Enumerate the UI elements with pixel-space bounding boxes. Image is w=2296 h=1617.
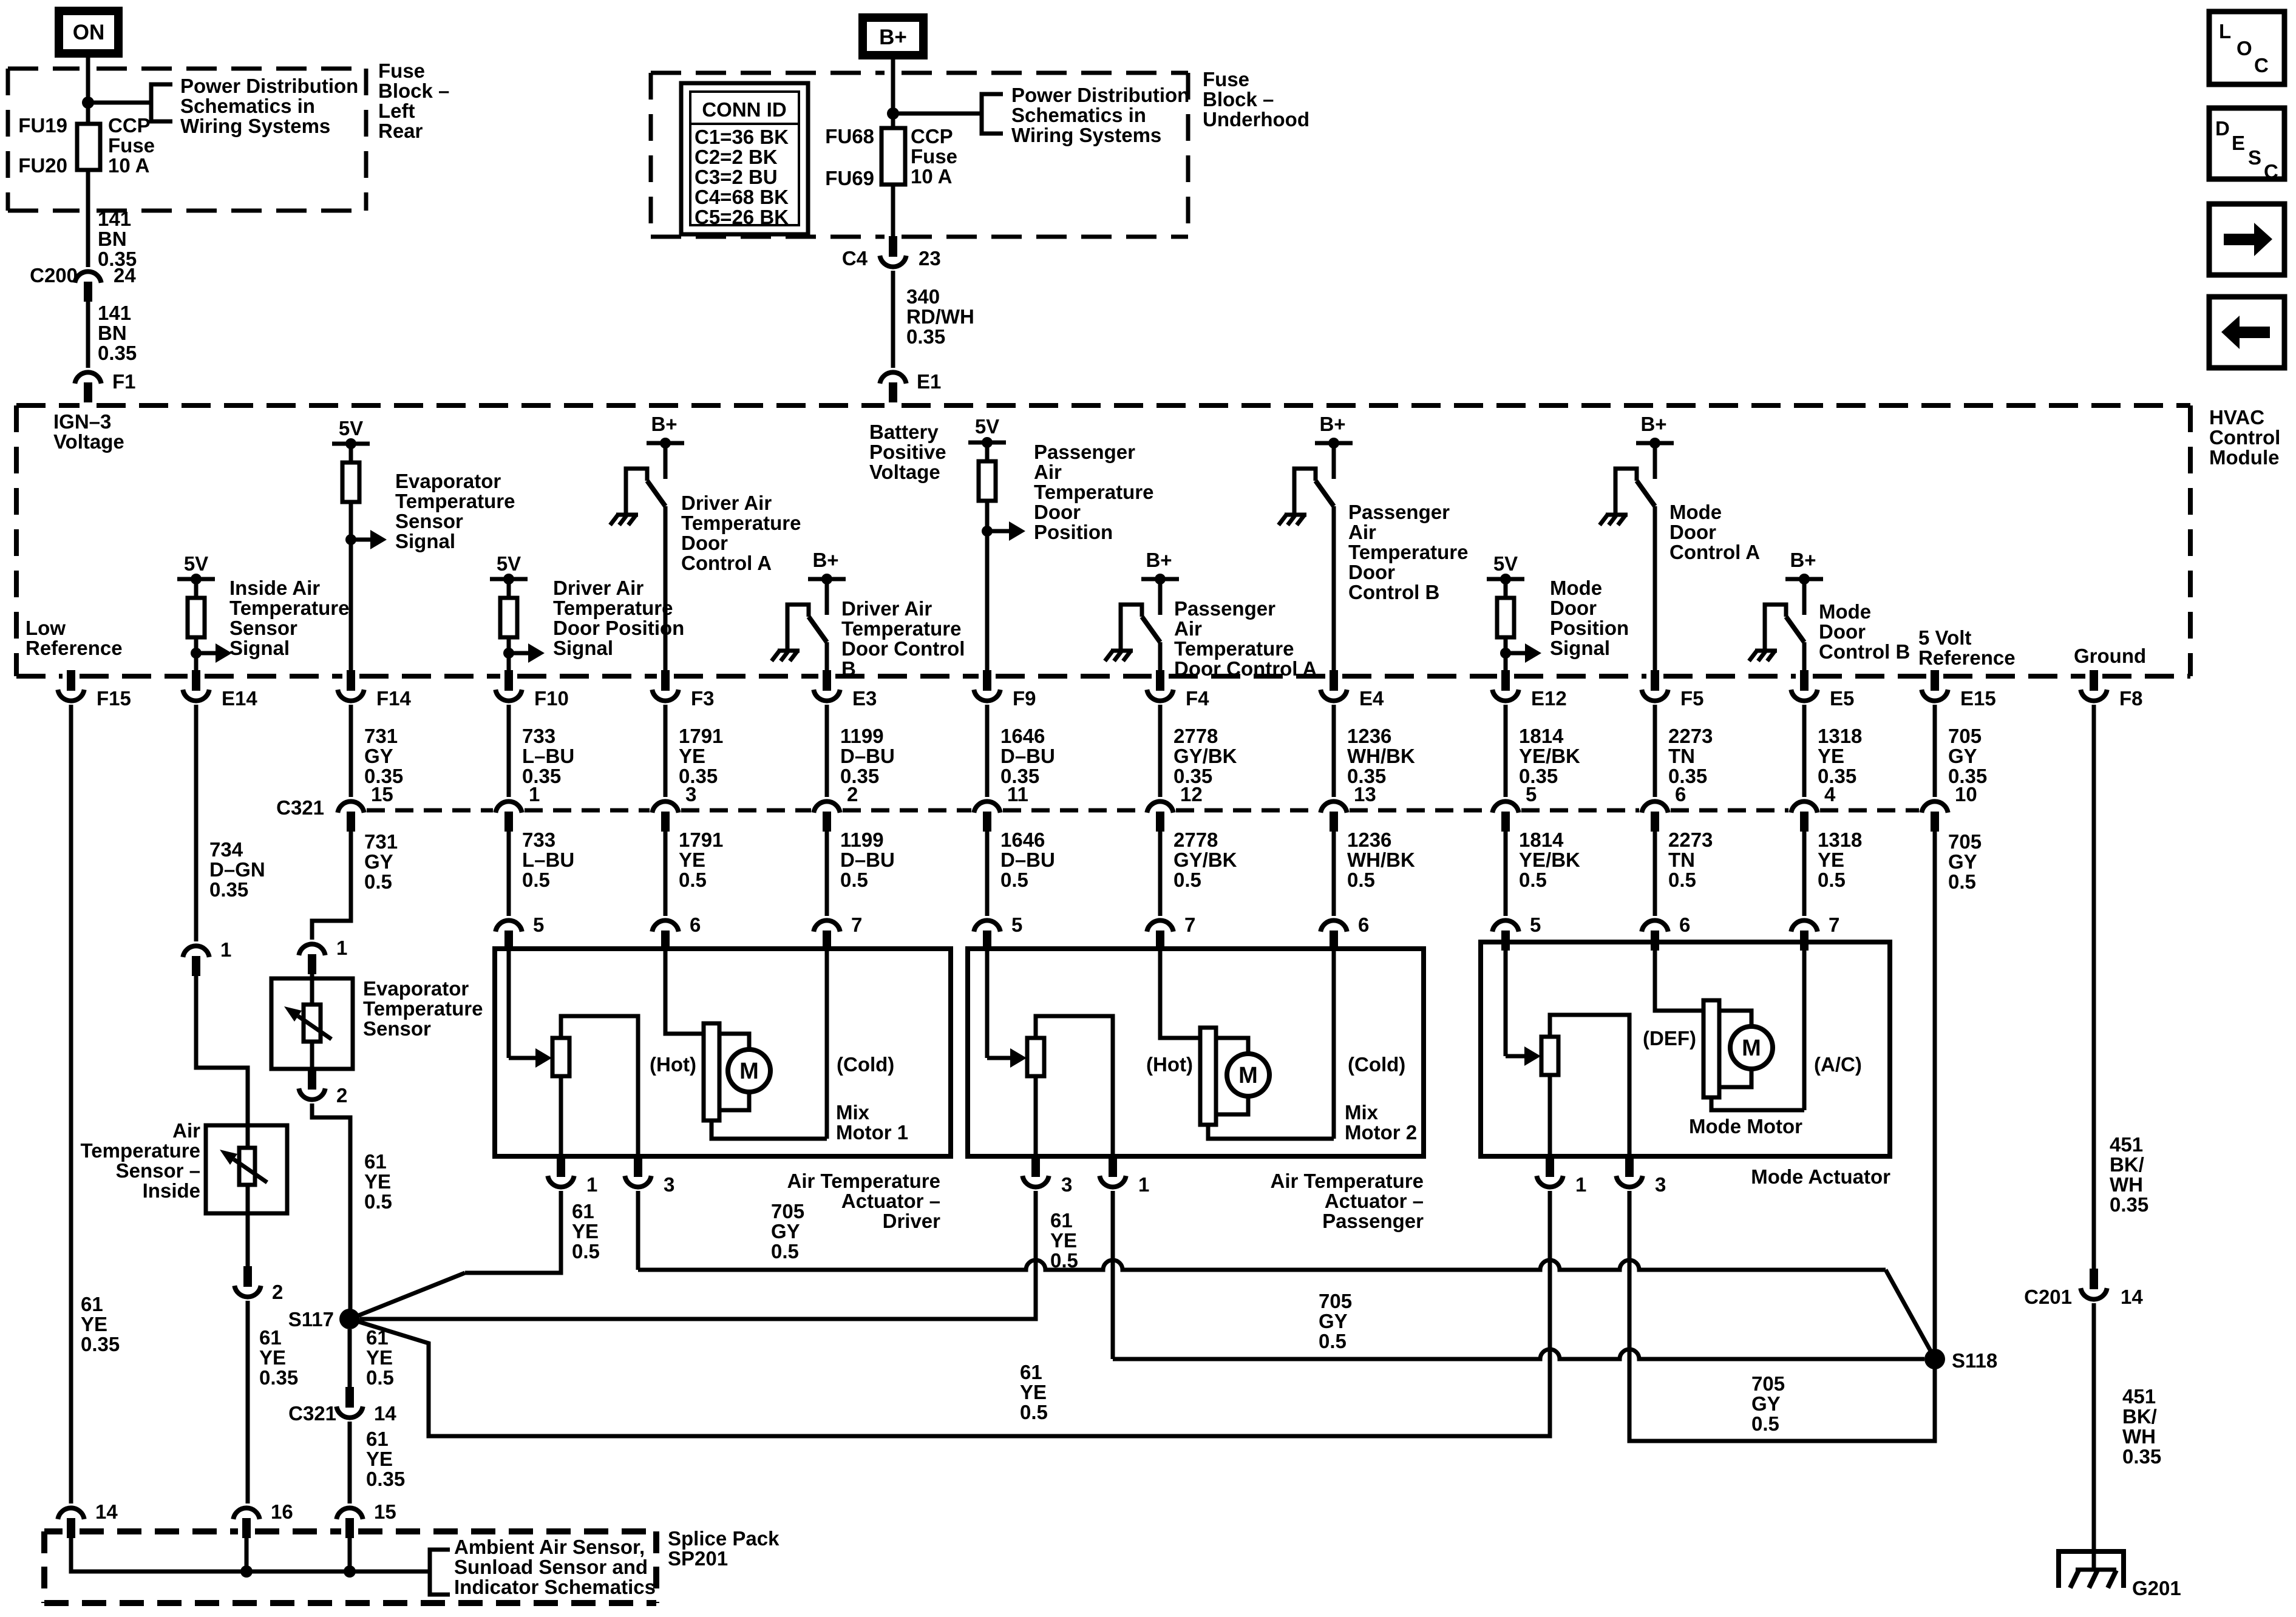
svg-text:(Hot): (Hot)	[1146, 1053, 1193, 1076]
power symbol B+ (battery feed)	[863, 18, 923, 55]
connector pin F10 of HVAC control module	[504, 670, 513, 691]
connector pin E14 of HVAC control module	[192, 670, 200, 691]
svg-text:Fuse: Fuse	[1203, 68, 1249, 90]
connector pin E5 of HVAC control module	[1800, 670, 1809, 691]
legend box arrow right	[2209, 204, 2284, 275]
svg-text:Temperature: Temperature	[841, 617, 961, 640]
svg-text:15: 15	[371, 783, 393, 805]
wire F4 to C321 pin 12	[1158, 705, 1163, 797]
svg-text:Block –: Block –	[1203, 88, 1274, 110]
wire C321-14 to SP201 pin 15	[348, 1422, 352, 1503]
svg-text:0.5: 0.5	[1173, 869, 1201, 891]
svg-text:Voltage: Voltage	[53, 430, 124, 453]
svg-text:BN: BN	[98, 322, 127, 344]
connector C321 pin 1	[495, 801, 521, 812]
svg-text:Inside: Inside	[143, 1179, 200, 1202]
node junction on B+ feed	[887, 107, 899, 120]
svg-text:BN: BN	[98, 228, 127, 250]
svg-text:YE/BK: YE/BK	[1519, 745, 1580, 767]
svg-text:0.5: 0.5	[364, 870, 392, 893]
svg-text:WH/BK: WH/BK	[1347, 745, 1415, 767]
svg-text:SP201: SP201	[668, 1547, 728, 1570]
svg-text:GY/BK: GY/BK	[1173, 745, 1237, 767]
legend box arrow left	[2209, 297, 2284, 368]
svg-text:Temperature: Temperature	[1174, 637, 1294, 660]
svg-text:YE: YE	[1818, 849, 1844, 871]
svg-text:Door: Door	[1034, 501, 1081, 523]
svg-text:733: 733	[522, 725, 555, 747]
svg-text:Door Control A: Door Control A	[1174, 657, 1317, 680]
connector C321 pin 2	[813, 801, 840, 812]
actuator connector pin 5 (col E12)	[1492, 920, 1518, 931]
svg-text:Actuator –: Actuator –	[841, 1190, 940, 1212]
svg-text:Driver Air: Driver Air	[553, 577, 644, 599]
svg-text:5V: 5V	[339, 417, 363, 439]
svg-text:B+: B+	[1790, 549, 1816, 571]
svg-text:0.35: 0.35	[679, 765, 718, 787]
svg-text:Power Distribution: Power Distribution	[180, 75, 358, 97]
svg-text:3: 3	[664, 1173, 674, 1196]
svg-text:C321: C321	[276, 796, 324, 819]
svg-text:1236: 1236	[1347, 829, 1391, 851]
svg-text:F4: F4	[1186, 687, 1209, 710]
svg-text:0.35: 0.35	[2110, 1193, 2148, 1216]
connector pin 1 driver actuator	[557, 1156, 565, 1177]
splice S117	[339, 1309, 360, 1329]
svg-text:Door: Door	[1669, 521, 1716, 543]
actuator connector pin 5 (col F9)	[974, 920, 1000, 931]
svg-text:E4: E4	[1359, 687, 1384, 710]
svg-text:Evaporator: Evaporator	[363, 977, 469, 1000]
wire driver actuator pin3 705 GY to splice S118	[636, 1191, 640, 1270]
wire pin 2 to SP201 pin 16	[246, 1301, 250, 1503]
svg-text:Fuse: Fuse	[108, 134, 155, 157]
wire E3 to C321 pin 2	[825, 705, 829, 797]
svg-text:E3: E3	[852, 687, 877, 710]
connector pin 1 evaporator temperature sensor	[299, 944, 325, 955]
svg-text:Fuse: Fuse	[911, 145, 957, 168]
wire F3 to C321 pin 3	[664, 705, 668, 797]
svg-text:IGN–3: IGN–3	[53, 410, 111, 433]
svg-text:GY: GY	[364, 745, 393, 767]
connector C321 pin 12	[1147, 801, 1173, 812]
svg-text:Signal: Signal	[229, 637, 290, 659]
svg-text:Indicator Schematics: Indicator Schematics	[454, 1576, 656, 1598]
svg-text:C200: C200	[30, 264, 78, 286]
svg-text:16: 16	[271, 1500, 293, 1523]
svg-text:B+: B+	[1146, 549, 1172, 571]
svg-text:1814: 1814	[1519, 829, 1564, 851]
svg-text:141: 141	[98, 302, 131, 324]
svg-text:10: 10	[1955, 783, 1977, 805]
svg-text:0.5: 0.5	[1000, 869, 1028, 891]
wire E5 below C321 to actuator pin 7	[1802, 832, 1807, 916]
wire E15 below C321 to splice S118	[1933, 832, 1937, 1358]
svg-text:YE: YE	[1818, 745, 1844, 767]
connector C321 pin 3	[652, 801, 678, 812]
svg-text:E15: E15	[1960, 687, 1996, 710]
svg-text:YE/BK: YE/BK	[1519, 849, 1580, 871]
wire ON to fuse FU19/FU20	[86, 53, 90, 124]
wire F10 to C321 pin 1	[507, 705, 511, 797]
actuator box Air Temperature Actuator - Passenger	[968, 949, 1424, 1156]
svg-text:3: 3	[1061, 1173, 1072, 1196]
svg-text:YE: YE	[679, 849, 705, 871]
actuator box Mode Actuator	[1481, 942, 1890, 1156]
wire E3 below C321 to actuator pin 7	[825, 832, 829, 916]
svg-text:1199: 1199	[840, 725, 884, 747]
wire F4 below C321 to actuator pin 7	[1158, 832, 1163, 916]
connector C321 pin 6	[1642, 801, 1668, 812]
node bus junction at pin 15	[344, 1565, 356, 1578]
svg-text:Air: Air	[172, 1119, 200, 1142]
svg-text:451: 451	[2110, 1133, 2143, 1156]
svg-text:61: 61	[364, 1150, 387, 1173]
svg-text:L–BU: L–BU	[522, 849, 574, 871]
svg-text:CCP: CCP	[108, 114, 151, 137]
connector pin E4 of HVAC control module	[1330, 670, 1338, 691]
svg-text:Position: Position	[1550, 617, 1629, 639]
svg-text:5V: 5V	[184, 552, 208, 575]
legend box DESC	[2209, 108, 2284, 179]
svg-text:Driver Air: Driver Air	[841, 597, 932, 620]
connector C4 pin 23	[889, 236, 897, 257]
svg-text:D–BU: D–BU	[840, 745, 895, 767]
svg-text:0.35: 0.35	[98, 342, 137, 364]
wire sensor to pin 2	[246, 1213, 250, 1266]
connector pin E3 of HVAC control module	[823, 670, 831, 691]
svg-text:Mode: Mode	[1819, 600, 1871, 623]
power symbol ON (ignition feed)	[59, 11, 118, 53]
svg-text:Control A: Control A	[681, 552, 772, 574]
svg-text:61: 61	[81, 1293, 103, 1315]
svg-text:Motor 2: Motor 2	[1345, 1121, 1417, 1144]
svg-text:451: 451	[2122, 1385, 2156, 1408]
connector pin 1 air temperature sensor inside	[183, 946, 209, 957]
svg-text:B: B	[841, 657, 856, 680]
svg-text:1646: 1646	[1000, 829, 1045, 851]
svg-text:C201: C201	[2024, 1286, 2072, 1308]
connector pin F1 of HVAC control module	[75, 372, 101, 383]
svg-text:7: 7	[1829, 914, 1839, 936]
connector pin 1 mode actuator	[1546, 1156, 1554, 1177]
svg-text:2: 2	[272, 1281, 283, 1303]
wire E4 below C321 to actuator pin 6	[1332, 832, 1336, 916]
svg-text:(Cold): (Cold)	[1348, 1053, 1405, 1076]
svg-text:Ground: Ground	[2074, 645, 2146, 667]
svg-text:0.5: 0.5	[1020, 1401, 1048, 1423]
wire S117 to passenger actuator pin3 (61 YE 0.5)	[360, 1191, 1036, 1319]
dashed box Fuse Block - Left Rear	[8, 67, 80, 71]
svg-text:BK/: BK/	[2122, 1405, 2157, 1428]
svg-text:Position: Position	[1034, 521, 1113, 543]
svg-text:F3: F3	[691, 687, 715, 710]
svg-text:L: L	[2219, 20, 2231, 42]
svg-text:24: 24	[114, 264, 136, 286]
svg-text:C3=2 BU: C3=2 BU	[695, 166, 778, 188]
svg-text:0.5: 0.5	[572, 1240, 600, 1263]
svg-text:B+: B+	[1640, 413, 1666, 435]
svg-text:2: 2	[847, 783, 858, 805]
svg-text:12: 12	[1180, 783, 1203, 805]
svg-text:CONN ID: CONN ID	[702, 98, 786, 121]
dashed line C321 connector	[367, 808, 493, 813]
svg-text:2273: 2273	[1668, 829, 1713, 851]
svg-text:0.5: 0.5	[679, 869, 707, 891]
svg-text:1646: 1646	[1000, 725, 1045, 747]
svg-text:Control B: Control B	[1348, 581, 1439, 603]
svg-text:D–BU: D–BU	[1000, 849, 1055, 871]
wire fuse to connector C200	[86, 170, 90, 267]
svg-text:TN: TN	[1668, 849, 1695, 871]
wire C4 to HVAC module pin E1	[891, 271, 895, 368]
svg-text:0.35: 0.35	[1519, 765, 1558, 787]
actuator connector pin 7 (col F4)	[1147, 920, 1173, 931]
svg-text:5V: 5V	[497, 552, 521, 575]
svg-text:6: 6	[1679, 914, 1690, 936]
actuator connector pin 6 (col F5)	[1642, 920, 1668, 931]
svg-text:Temperature: Temperature	[1034, 481, 1153, 503]
reference bracket Ambient Air Sensor schematics	[430, 1550, 450, 1595]
connector SP201 pin 16	[233, 1508, 259, 1519]
svg-text:Door: Door	[1819, 620, 1866, 643]
connector pin F4 of HVAC control module	[1156, 670, 1164, 691]
svg-text:0.5: 0.5	[1519, 869, 1547, 891]
svg-text:1: 1	[586, 1173, 597, 1196]
svg-text:5: 5	[1526, 783, 1537, 805]
svg-text:ON: ON	[73, 21, 105, 44]
svg-text:F10: F10	[534, 687, 569, 710]
svg-text:1199: 1199	[840, 829, 884, 851]
svg-text:Control: Control	[2209, 426, 2280, 449]
svg-text:Temperature: Temperature	[363, 997, 483, 1020]
svg-text:Schematics in: Schematics in	[1011, 104, 1146, 126]
potentiometer mode actuator	[1504, 935, 1508, 1056]
svg-text:Mode: Mode	[1550, 577, 1602, 599]
svg-text:D: D	[2215, 117, 2230, 140]
svg-text:GY: GY	[1319, 1310, 1348, 1332]
connector pin E1 of HVAC control module	[880, 372, 906, 383]
svg-text:0.5: 0.5	[1347, 869, 1375, 891]
motor M mix motor 2	[1160, 949, 1200, 1038]
svg-text:Sunload Sensor and: Sunload Sensor and	[454, 1556, 648, 1578]
svg-text:340: 340	[906, 285, 940, 308]
svg-text:1318: 1318	[1818, 725, 1862, 747]
svg-text:(Cold): (Cold)	[837, 1053, 894, 1076]
svg-text:Driver: Driver	[883, 1210, 941, 1232]
svg-text:Passenger: Passenger	[1322, 1210, 1424, 1232]
connector SP201 pin 14	[58, 1508, 84, 1519]
svg-text:5: 5	[1011, 914, 1022, 936]
svg-text:0.5: 0.5	[364, 1190, 392, 1213]
wire driver actuator pin1 to S117 (61 YE 0.5)	[465, 1191, 561, 1273]
wire E12 to C321 pin 5	[1504, 705, 1508, 797]
wire E14 to air temperature sensor pin 1	[194, 705, 199, 941]
wire F9 to C321 pin 11	[985, 705, 990, 797]
sensor Evaporator Temperature Sensor (variable resistor)	[271, 978, 353, 1069]
svg-text:Control B: Control B	[1819, 640, 1910, 663]
connector pin 3 passenger actuator	[1031, 1156, 1040, 1177]
svg-text:B+: B+	[812, 549, 838, 571]
svg-text:0.5: 0.5	[366, 1366, 394, 1389]
svg-text:O: O	[2237, 37, 2252, 59]
svg-text:0.35: 0.35	[840, 765, 879, 787]
svg-text:G201: G201	[2132, 1577, 2181, 1599]
svg-text:E12: E12	[1531, 687, 1567, 710]
svg-text:Signal: Signal	[553, 637, 613, 659]
connector C321 pin 10	[1921, 801, 1948, 812]
svg-text:RD/WH: RD/WH	[906, 305, 974, 328]
svg-text:GY/BK: GY/BK	[1173, 849, 1237, 871]
wire mode actuator pin3 705 GY to S118	[1629, 1191, 1935, 1441]
connector C321 pin 13	[1320, 801, 1347, 812]
svg-text:6: 6	[1358, 914, 1369, 936]
svg-text:Actuator –: Actuator –	[1325, 1190, 1424, 1212]
svg-text:Door: Door	[1348, 561, 1395, 583]
svg-text:(A/C): (A/C)	[1814, 1053, 1862, 1076]
svg-text:705: 705	[1948, 725, 1982, 747]
svg-text:BK/: BK/	[2110, 1153, 2144, 1176]
wire S117 down to C321 pin 14	[348, 1329, 352, 1387]
svg-text:1318: 1318	[1818, 829, 1862, 851]
svg-text:GY: GY	[771, 1220, 800, 1242]
svg-text:0.35: 0.35	[2122, 1445, 2161, 1468]
connector C321 pin 11	[974, 801, 1000, 812]
svg-text:S: S	[2248, 146, 2261, 169]
svg-text:YE: YE	[259, 1346, 286, 1369]
svg-text:7: 7	[851, 914, 862, 936]
wire F5 to C321 pin 6	[1653, 705, 1657, 797]
svg-text:1: 1	[1138, 1173, 1149, 1196]
svg-text:D–BU: D–BU	[1000, 745, 1055, 767]
svg-text:M: M	[1238, 1063, 1258, 1088]
connector pin F15 of HVAC control module	[67, 670, 75, 691]
svg-text:Passenger: Passenger	[1034, 441, 1135, 463]
svg-text:5 Volt: 5 Volt	[1918, 626, 1971, 649]
dashed box HVAC Control Module	[16, 403, 80, 408]
svg-text:11: 11	[1007, 783, 1028, 805]
svg-text:L–BU: L–BU	[522, 745, 574, 767]
svg-text:Splice Pack: Splice Pack	[668, 1527, 779, 1550]
svg-text:61: 61	[366, 1428, 389, 1450]
connector C321 pin 5	[1492, 801, 1518, 812]
svg-text:5V: 5V	[1493, 552, 1518, 575]
svg-text:0.35: 0.35	[1818, 765, 1856, 787]
wire F14 below C321 to evaporator sensor	[312, 832, 351, 940]
svg-text:Sensor: Sensor	[363, 1017, 431, 1040]
svg-text:1236: 1236	[1347, 725, 1391, 747]
svg-text:Power Distribution: Power Distribution	[1011, 84, 1189, 106]
svg-text:705: 705	[1948, 830, 1982, 853]
wire S117 to mode actuator pin1 (61 YE 0.5)	[350, 1191, 1550, 1436]
svg-text:Mix: Mix	[836, 1101, 870, 1124]
svg-text:Sensor –: Sensor –	[116, 1159, 200, 1182]
connector C321 pin 15	[338, 801, 364, 812]
table CONN ID	[681, 83, 808, 234]
svg-text:0.35: 0.35	[209, 878, 248, 901]
connector pin 2 evaporator temperature sensor	[308, 1069, 316, 1090]
svg-text:M: M	[1742, 1036, 1761, 1061]
svg-text:CCP: CCP	[911, 125, 953, 147]
svg-text:4: 4	[1824, 783, 1836, 805]
splice S118	[1924, 1349, 1945, 1369]
svg-text:B+: B+	[879, 25, 907, 49]
svg-text:D–BU: D–BU	[840, 849, 895, 871]
wire F3 below C321 to actuator pin 6	[664, 832, 668, 916]
svg-text:0.35: 0.35	[906, 325, 945, 348]
svg-text:Wiring Systems: Wiring Systems	[1011, 124, 1161, 146]
connector pin 3 mode actuator	[1625, 1156, 1634, 1177]
svg-text:Mode Motor: Mode Motor	[1689, 1115, 1802, 1137]
svg-text:731: 731	[364, 725, 398, 747]
connector pin 2 air temperature sensor inside	[243, 1266, 252, 1287]
svg-text:Temperature: Temperature	[1348, 541, 1468, 563]
svg-text:Temperature: Temperature	[81, 1139, 200, 1162]
svg-text:0.35: 0.35	[259, 1366, 298, 1389]
svg-text:C1=36 BK: C1=36 BK	[695, 126, 789, 148]
svg-text:YE: YE	[366, 1448, 393, 1470]
svg-text:WH: WH	[2110, 1173, 2143, 1196]
svg-text:C2=2 BK: C2=2 BK	[695, 146, 778, 168]
connector pin E15 of HVAC control module	[1931, 670, 1939, 691]
svg-text:E1: E1	[917, 370, 941, 393]
svg-text:GY: GY	[1948, 745, 1977, 767]
svg-text:C4: C4	[842, 247, 868, 269]
svg-text:Door Control: Door Control	[841, 637, 965, 660]
wire junction to reference bracket	[893, 112, 982, 116]
svg-text:Motor 1: Motor 1	[836, 1121, 908, 1144]
svg-text:61: 61	[259, 1326, 282, 1349]
svg-text:Ambient Air Sensor,: Ambient Air Sensor,	[454, 1536, 645, 1558]
svg-text:13: 13	[1354, 783, 1376, 805]
svg-text:Module: Module	[2209, 446, 2279, 469]
svg-text:D–GN: D–GN	[209, 858, 265, 881]
svg-text:Schematics in: Schematics in	[180, 95, 315, 117]
svg-text:1791: 1791	[679, 725, 723, 747]
svg-text:Reference: Reference	[25, 637, 123, 659]
svg-text:1: 1	[529, 783, 540, 805]
svg-text:Door: Door	[681, 532, 728, 554]
svg-text:Air: Air	[1034, 461, 1062, 483]
svg-text:3: 3	[1655, 1173, 1666, 1196]
svg-text:0.35: 0.35	[366, 1468, 405, 1490]
wire E15 to C321 pin 10	[1933, 705, 1937, 797]
actuator connector pin 6 (col F3)	[652, 920, 678, 931]
connector pin E12 of HVAC control module	[1501, 670, 1510, 691]
svg-text:(DEF): (DEF)	[1643, 1027, 1696, 1049]
potentiometer driver actuator	[507, 937, 511, 1058]
svg-text:TN: TN	[1668, 745, 1695, 767]
svg-text:Inside Air: Inside Air	[229, 577, 320, 599]
svg-text:0.35: 0.35	[81, 1333, 120, 1355]
svg-text:0.35: 0.35	[1668, 765, 1707, 787]
connector pin 3 driver actuator	[634, 1156, 642, 1177]
fuse FU68/FU69 CCP Fuse 10 A	[881, 128, 905, 185]
svg-text:Air Temperature: Air Temperature	[787, 1170, 940, 1192]
svg-text:Temperature: Temperature	[395, 490, 515, 512]
svg-text:5: 5	[533, 914, 544, 936]
svg-text:14: 14	[2121, 1286, 2143, 1308]
actuator connector pin 7 (col E5)	[1791, 920, 1817, 931]
svg-text:GY: GY	[1948, 850, 1977, 873]
svg-text:61: 61	[1020, 1361, 1042, 1383]
ground G201	[2059, 1551, 2124, 1588]
reference bracket Power Distribution (left)	[151, 84, 172, 121]
actuator connector pin 6 (col E4)	[1320, 920, 1347, 931]
wire evap pin 2 to splice S117	[312, 1103, 350, 1319]
svg-text:14: 14	[374, 1402, 396, 1425]
connector C201 pin 14	[2090, 1269, 2098, 1289]
